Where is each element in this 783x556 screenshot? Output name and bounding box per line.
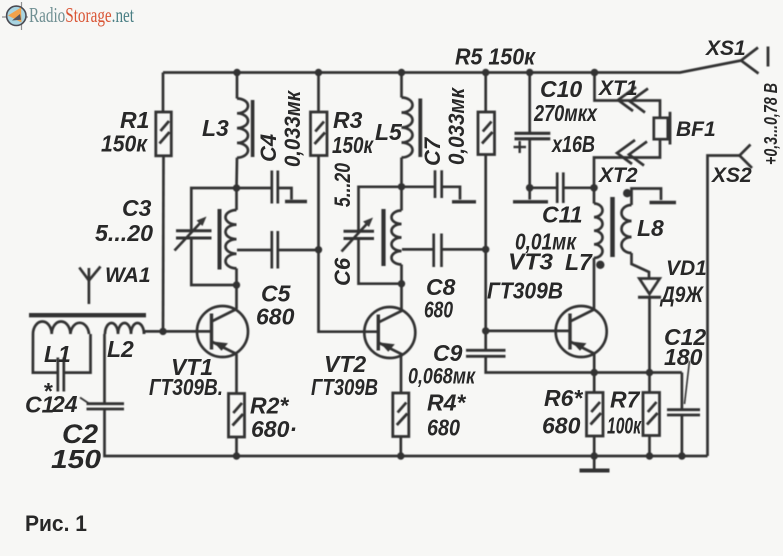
inductor L5: [402, 98, 413, 158]
svg-text:C11: C11: [542, 202, 583, 228]
svg-text:5...20: 5...20: [330, 162, 355, 207]
node bus junction R3: [315, 69, 322, 76]
inductor L4: [226, 210, 237, 268]
svg-text:VT3: VT3: [508, 249, 553, 275]
wire L8 top lead to chassis stub: [632, 189, 662, 206]
wire C4 to chassis stub: [278, 188, 292, 200]
svg-text:L8: L8: [637, 215, 664, 241]
svg-text:L5: L5: [375, 119, 403, 145]
wire node A to C4: [237, 187, 272, 190]
wire top supply bus: [163, 61, 741, 73]
node ground rail R4: [397, 452, 404, 459]
wire R3 rail: [317, 73, 320, 113]
wire R3 rail lower part to VT2 base: [319, 156, 379, 332]
svg-text:Д9Ж: Д9Ж: [659, 282, 704, 307]
chassis bar under C10: [513, 200, 548, 203]
label leader line C12: [685, 361, 690, 404]
wire VT2 emitter to R4: [400, 354, 403, 393]
connector XS1 fork: [741, 48, 759, 74]
wire C12 top lead: [681, 373, 684, 410]
svg-text:680·: 680·: [251, 416, 297, 442]
svg-text:C3: C3: [122, 195, 152, 221]
wire VT3 emitter lead: [593, 354, 596, 373]
wire bottom ground rail: [105, 409, 708, 456]
svg-text:XT2: XT2: [598, 164, 638, 187]
wire C8 to R5 rail: [442, 248, 486, 251]
svg-text:C9: C9: [433, 340, 463, 366]
connector XT2 chevrons: [617, 140, 635, 164]
wire C9 bottom lead and emitter bus: [486, 356, 682, 372]
node VT1 base junction with L2: [159, 328, 166, 335]
resistor R2: [229, 394, 245, 438]
resistor R3: [311, 112, 328, 156]
svg-text:5...20: 5...20: [95, 220, 153, 246]
svg-text:ГТ309В.: ГТ309В.: [149, 374, 223, 400]
wire VT2 collector lead: [400, 284, 403, 310]
wire L2 left lead down to C2: [103, 334, 106, 404]
transistor VT3: [556, 306, 607, 357]
wire L5 top lead: [400, 73, 403, 98]
core of L3: [251, 100, 255, 157]
svg-text:Рис. 1: Рис. 1: [25, 511, 87, 536]
wire C5 tap from L4: [237, 249, 272, 252]
capacitor C1 plates: [56, 358, 59, 392]
node bus junction L5: [398, 69, 405, 76]
node polarity dot L7: [596, 261, 604, 269]
svg-text:L1: L1: [44, 341, 71, 367]
node tank2 bottom junction: [398, 280, 405, 287]
svg-text:L2: L2: [107, 336, 134, 362]
svg-text:R4*: R4*: [427, 390, 466, 416]
svg-text:XS1: XS1: [705, 37, 746, 60]
node ground rail R2: [233, 452, 240, 459]
svg-text:C4: C4: [256, 134, 281, 162]
wire L4 top lead to node A: [235, 188, 238, 210]
node C5 to R3 rail junction: [315, 246, 322, 253]
wire C7 to chassis stub: [442, 187, 460, 200]
node VT3 base junction: [482, 327, 489, 334]
svg-text:ГТ309В: ГТ309В: [311, 374, 378, 400]
node B tank2 top junction: [398, 183, 405, 190]
resistor R5: [478, 112, 495, 155]
resistor R7: [643, 393, 660, 436]
wire C5 to R3 rail: [278, 249, 319, 252]
diode VD1: [639, 279, 659, 295]
svg-text:24: 24: [51, 391, 78, 417]
svg-text:L7: L7: [565, 249, 593, 275]
core of L4: [218, 209, 222, 270]
svg-text:R5 150к: R5 150к: [455, 44, 536, 70]
wire R5 rail: [484, 73, 487, 113]
node ground rail R6: [591, 452, 598, 459]
resistor R6: [587, 393, 604, 437]
svg-text:C10: C10: [540, 76, 582, 102]
logo RadioStorage.net: [2, 2, 134, 30]
svg-text:C7: C7: [420, 136, 445, 166]
wire VD1 cathode down to R7 node: [648, 297, 651, 392]
transistor VT1: [197, 306, 248, 357]
svg-text:180: 180: [664, 344, 703, 370]
node C10 C11 junction: [526, 184, 534, 192]
svg-text:0,033мк: 0,033мк: [444, 86, 469, 165]
svg-text:150к: 150к: [101, 131, 148, 157]
inductor L1: [33, 322, 89, 335]
node D junction XT2 L7: [590, 184, 598, 192]
inductor L6: [392, 211, 402, 265]
wire node B to C6 top: [359, 187, 402, 230]
capacitor C11 plates: [556, 172, 559, 203]
node emitter bus R6 junction: [591, 369, 598, 376]
capacitor C9 plates: [466, 349, 506, 352]
svg-text:XS2: XS2: [711, 164, 752, 187]
capacitor C2 plates: [87, 402, 125, 405]
svg-text:RadioStorage.net: RadioStorage.net: [29, 3, 134, 27]
wire C8 tap from L6: [402, 248, 434, 251]
wire VT1 collector lead: [235, 285, 238, 309]
svg-text:0,033мк: 0,033мк: [280, 89, 305, 167]
node tank1 bottom junction: [233, 281, 240, 288]
chassis bar under C7: [452, 200, 476, 203]
chassis bar at L8 top: [650, 201, 677, 204]
core of L5: [418, 99, 422, 158]
node bus junction XT1: [591, 69, 599, 77]
wire C11 right lead to node D: [563, 186, 594, 189]
svg-text:+0,3...0,78 В: +0,3...0,78 В: [761, 83, 781, 165]
arrow of trimmer C3: [175, 220, 204, 251]
wire C10 bottom lead: [528, 139, 531, 200]
inductor L8: [622, 205, 632, 253]
inductor L7: [594, 204, 603, 258]
node emitter bus R7 junction: [646, 369, 653, 376]
svg-text:150: 150: [51, 444, 102, 474]
svg-text:C6: C6: [330, 257, 355, 286]
wire R6 leads: [593, 373, 596, 393]
wire C6 bottom to tank2 bottom node: [359, 240, 402, 284]
headphone BF1: [654, 118, 668, 139]
wire C12 bottom lead: [681, 415, 684, 456]
connector XS1 pin bar: [767, 47, 770, 67]
wire BF1 bottom to XT2 and node D: [594, 139, 660, 188]
node ground rail C12: [678, 452, 685, 459]
svg-text:XT1: XT1: [598, 77, 638, 100]
ground symbol: [593, 456, 596, 469]
node C8 to R5 rail junction: [482, 246, 489, 253]
capacitor C7 plates: [434, 170, 437, 198]
wire R2 bottom to ground rail: [235, 437, 238, 456]
node bus junction L3: [233, 69, 240, 76]
wire C11 left lead: [530, 186, 558, 189]
wire L3 top lead: [236, 73, 239, 99]
wire L7 top lead: [593, 188, 596, 204]
capacitor C3 variable trimmer plates: [176, 229, 212, 232]
transistor VT2: [364, 307, 415, 358]
core of transformer L7 L8: [610, 197, 615, 257]
svg-text:150к: 150к: [332, 132, 374, 158]
svg-text:R1: R1: [120, 107, 149, 133]
node A tank1 top junction: [233, 184, 240, 191]
svg-text:680: 680: [256, 304, 295, 330]
ferrite rod of magnetic antenna: [29, 313, 146, 317]
svg-text:R6*: R6*: [544, 385, 583, 411]
wire L1 loop right side: [64, 334, 91, 373]
node bus junction R5: [482, 69, 489, 76]
node polarity dot L8: [623, 189, 631, 197]
svg-text:R3: R3: [333, 107, 363, 133]
wire L6 bottom lead to node: [400, 265, 403, 284]
svg-text:0,068мк: 0,068мк: [408, 364, 476, 389]
capacitor C8 plates: [432, 234, 435, 268]
wire L1 loop left side: [33, 334, 58, 373]
core of L6: [381, 209, 385, 266]
wire L3 bottom lead to node A: [235, 158, 238, 188]
svg-text:R2*: R2*: [250, 393, 289, 419]
wire L2 right lead to VT1 base node: [144, 331, 163, 334]
wire R7 bottom lead: [648, 436, 651, 457]
wire R4 bottom to ground rail: [399, 437, 402, 457]
node bus junction C10: [526, 69, 533, 76]
arrow of trimmer C6: [342, 221, 370, 252]
node ground rail R7: [646, 452, 653, 459]
svg-text:680: 680: [427, 415, 460, 441]
svg-text:R7: R7: [610, 387, 641, 413]
svg-text:L3: L3: [202, 115, 229, 141]
svg-text:680: 680: [424, 297, 453, 323]
wire left rail to R1 and VT1 base: [162, 73, 165, 113]
inductor L3: [237, 99, 248, 158]
svg-text:WA1: WA1: [105, 264, 151, 287]
resistor R4: [393, 393, 409, 437]
label leader tick C1 to C2: [80, 398, 89, 404]
svg-text:ГТ309В: ГТ309В: [487, 278, 563, 304]
svg-text:VD1: VD1: [666, 257, 707, 280]
capacitor C12 plates: [667, 408, 700, 411]
wire XS2 drop line: [708, 156, 740, 457]
inductor L2: [105, 323, 144, 334]
resistor R1: [156, 112, 172, 156]
wire L4 bottom lead down to bottom node: [235, 268, 238, 285]
wire node B to C7: [402, 185, 436, 188]
wire C10 top lead: [528, 73, 531, 133]
plus sign of C10: [514, 146, 527, 148]
wire XT1 link from bus to BF1: [595, 73, 661, 118]
svg-text:680: 680: [542, 413, 581, 439]
wire VT1 emitter to R2: [235, 354, 238, 394]
wire R5 rail lower part to VT3 base: [484, 155, 487, 350]
svg-text:100к: 100к: [607, 413, 642, 439]
antenna WA1: [88, 268, 91, 304]
connector XT1 chevrons: [618, 87, 636, 111]
wire VT1 base lead: [163, 330, 212, 333]
capacitor C10 plates: [515, 132, 551, 135]
wire L8 bottom lead to VD1: [632, 253, 650, 278]
wire L6 top lead: [400, 187, 403, 211]
wire VT3 base lead: [486, 330, 570, 333]
wire L7 bottom to VT3 collector: [593, 258, 596, 309]
capacitor C5 plates: [270, 231, 273, 269]
capacitor C4 plates: [270, 171, 273, 204]
capacitor C6 variable trimmer plates: [344, 230, 375, 233]
connector XS2 fork: [740, 145, 753, 169]
chassis bar under C4: [285, 200, 307, 203]
wire node A to C3 top: [191, 188, 236, 230]
svg-text:BF1: BF1: [676, 118, 716, 141]
svg-text:270мкх: 270мкх: [533, 100, 598, 126]
wire L5 bottom to node B: [400, 158, 403, 187]
wire C3 bottom to tank1 bottom node: [191, 239, 236, 285]
svg-text:х16В: х16В: [550, 131, 595, 157]
